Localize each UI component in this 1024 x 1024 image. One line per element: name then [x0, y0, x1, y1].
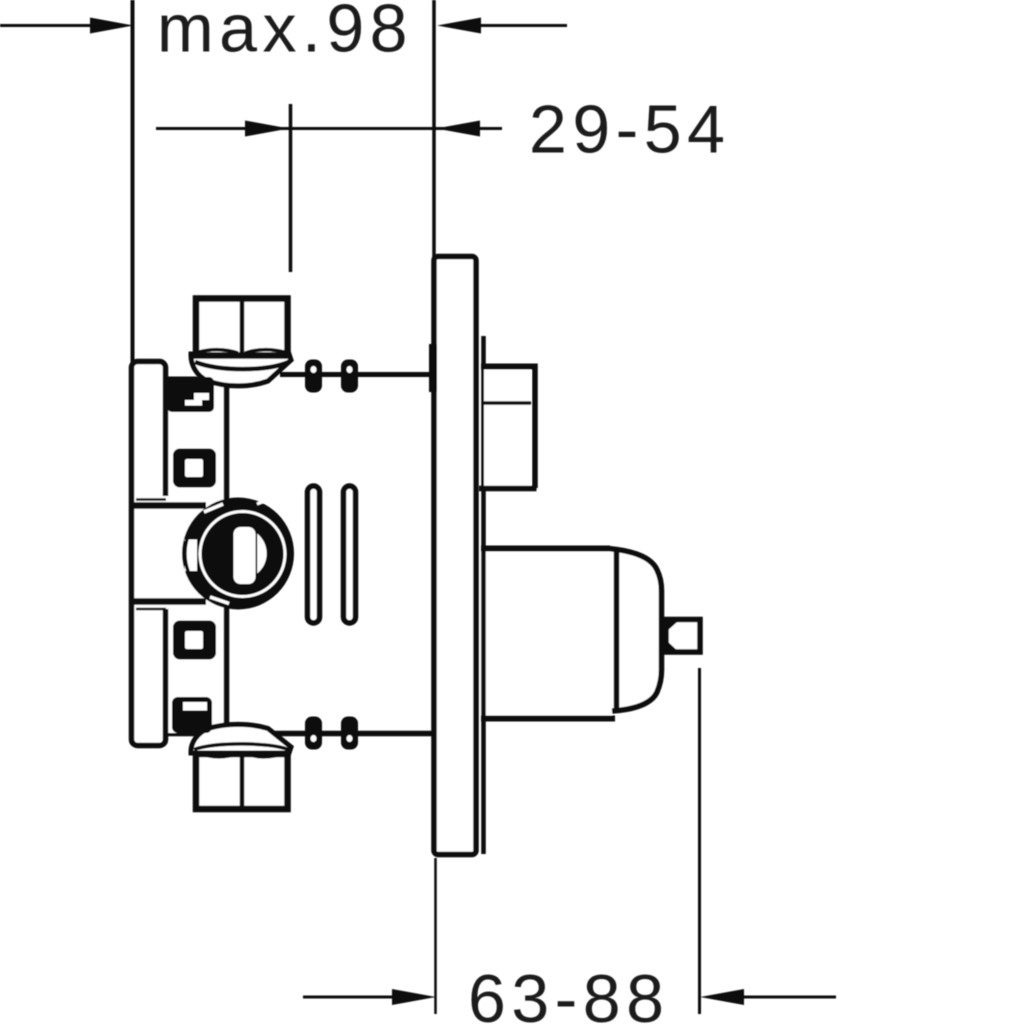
dimension 63-88 left arrow — [392, 989, 436, 1005]
body column top edge — [164, 377, 197, 383]
spindle pin wedge top — [666, 619, 681, 633]
flange right edge erase (middle) — [159, 496, 171, 609]
o-ring top 2 — [341, 360, 358, 393]
bottom hex nut facet arcs — [199, 753, 238, 757]
bottom hex nut body — [196, 754, 288, 809]
inlet port white nick top-right — [257, 501, 266, 505]
service block bottom edge — [479, 486, 537, 492]
dimension max.98 right line — [479, 24, 567, 27]
extension line right (max.98 / wall face) — [432, 0, 436, 258]
extension line left (max.98) — [131, 0, 135, 362]
top hex nut centre line — [240, 301, 245, 355]
spindle pin outline — [666, 620, 700, 653]
o-ring bottom 2 — [341, 717, 358, 750]
bottom hex nut chamfer line — [194, 744, 288, 750]
o-ring bottom 1 — [305, 717, 322, 750]
cartridge bottom edge — [481, 716, 615, 722]
cartridge dome outline — [608, 549, 662, 712]
clip 1 (top) — [167, 377, 214, 412]
dimension max.98 left arrow — [90, 18, 134, 34]
top hex nut body — [196, 299, 288, 356]
extension stub (29-54 left) — [289, 104, 293, 272]
extension line below plate (63-88 left) — [434, 858, 437, 1014]
dimension 63-88 left line — [303, 996, 394, 999]
inlet port white notch left — [185, 540, 198, 572]
dimension 29-54 left arrow — [245, 121, 289, 137]
cartridge top edge — [481, 546, 610, 552]
cartridge body fill — [481, 550, 661, 716]
dimension max.98 left line — [0, 24, 96, 27]
wall plate (escutcheon) — [434, 257, 476, 855]
spindle pin fill — [665, 619, 699, 652]
spindle pin wedge bottom — [666, 640, 681, 654]
service block fill — [484, 366, 531, 488]
svg-text:max.98: max.98 — [157, 0, 413, 67]
pipe line bottom / body bottom edge — [165, 731, 436, 737]
flange break line top — [136, 498, 166, 501]
dimension max.98 right arrow — [437, 18, 481, 34]
service block right edge — [532, 364, 538, 489]
service block inner line — [483, 401, 531, 405]
inlet port white nick top-left — [204, 504, 223, 512]
inlet port right white arc — [257, 534, 267, 574]
body column fill — [168, 377, 226, 733]
extension line right (63-88) — [698, 668, 701, 1014]
clip 3 — [173, 621, 216, 660]
top hex nut chamfer bowl — [191, 354, 291, 386]
inlet boss fill — [136, 504, 206, 601]
dimension 29-54 right arrow — [436, 121, 480, 137]
inlet port outer-left arc — [185, 535, 188, 571]
bottom hex nut centre line — [240, 757, 245, 806]
inlet boss top edge — [133, 502, 206, 509]
inlet port white nick bottom-left — [210, 597, 229, 604]
mounting flange plate — [132, 362, 166, 746]
top hex nut facet arcs — [197, 350, 238, 353]
body column right edge — [224, 381, 230, 732]
wall plate inlet junction blob — [429, 344, 437, 392]
flange break line bottom — [136, 608, 166, 611]
slot right — [344, 486, 356, 623]
inlet port inner white circle — [200, 512, 285, 597]
dimension 29-54 line — [156, 127, 502, 130]
svg-text:29-54: 29-54 — [529, 92, 730, 168]
pipe line top — [280, 372, 436, 377]
inlet boss bottom edge — [133, 598, 206, 605]
clip 2 — [173, 449, 216, 488]
dimension 63-88 right line — [742, 996, 836, 999]
inlet port centre hole — [234, 527, 256, 584]
dimension 63-88 right arrow — [700, 989, 744, 1005]
service block top edge — [481, 364, 534, 370]
wall plate second edge — [481, 336, 486, 854]
inlet port ring — [182, 498, 294, 610]
bottom hex nut chamfer cap — [191, 724, 291, 753]
o-ring top 1 — [305, 360, 322, 393]
slot left — [308, 486, 320, 623]
cartridge face line — [614, 551, 620, 710]
svg-text:63-88: 63-88 — [468, 961, 669, 1024]
top hex nut chamfer line — [195, 362, 289, 369]
clip 4 (bottom) — [172, 697, 212, 733]
